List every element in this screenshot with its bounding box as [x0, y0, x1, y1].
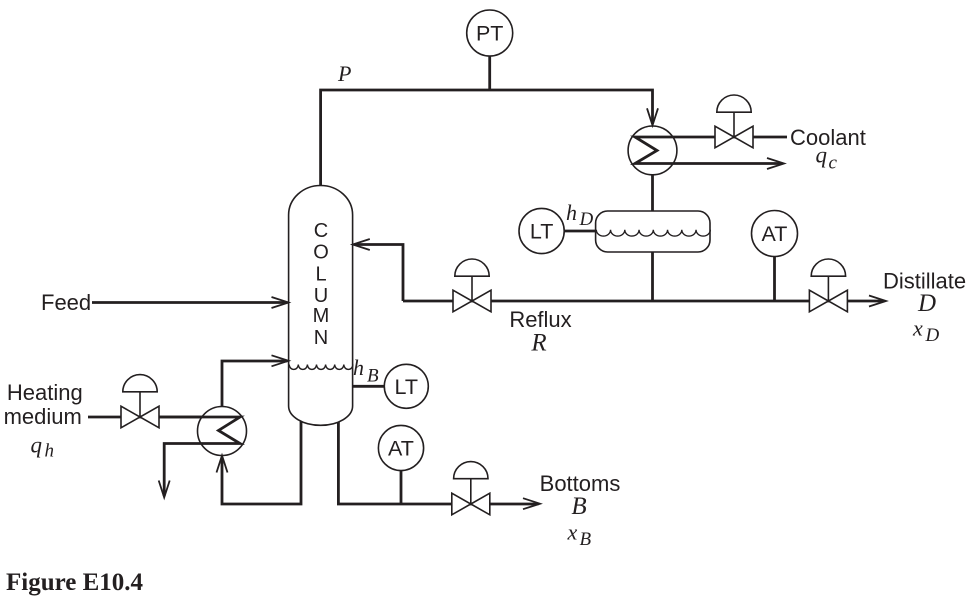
svg-text:Figure E10.4: Figure E10.4: [6, 569, 144, 596]
svg-text:D: D: [917, 290, 936, 317]
svg-text:LT: LT: [530, 220, 554, 244]
svg-text:AT: AT: [762, 222, 788, 246]
svg-text:h: h: [45, 441, 55, 462]
svg-text:Reflux: Reflux: [509, 307, 571, 332]
svg-text:h: h: [353, 355, 364, 380]
svg-text:B: B: [571, 493, 586, 520]
svg-text:D: D: [925, 325, 940, 346]
svg-text:B: B: [580, 529, 592, 550]
svg-text:N: N: [314, 327, 328, 349]
svg-text:LT: LT: [395, 375, 419, 399]
svg-text:x: x: [912, 316, 923, 341]
svg-text:Heating: Heating: [7, 380, 83, 405]
svg-text:Coolant: Coolant: [790, 125, 866, 150]
svg-text:h: h: [566, 200, 577, 225]
svg-text:q: q: [816, 143, 828, 168]
svg-text:O: O: [313, 241, 329, 263]
svg-text:PT: PT: [476, 22, 503, 46]
svg-text:U: U: [314, 285, 328, 307]
svg-text:AT: AT: [388, 437, 414, 461]
svg-text:c: c: [829, 153, 838, 174]
svg-text:medium: medium: [4, 404, 82, 429]
svg-text:C: C: [314, 220, 328, 242]
svg-text:D: D: [579, 209, 594, 230]
svg-text:q: q: [31, 433, 43, 458]
svg-text:M: M: [313, 305, 330, 327]
svg-text:P: P: [337, 61, 351, 86]
svg-text:L: L: [315, 264, 326, 286]
svg-text:x: x: [567, 520, 578, 545]
svg-text:B: B: [367, 366, 379, 387]
svg-text:Feed: Feed: [41, 290, 91, 315]
svg-text:R: R: [530, 330, 546, 357]
